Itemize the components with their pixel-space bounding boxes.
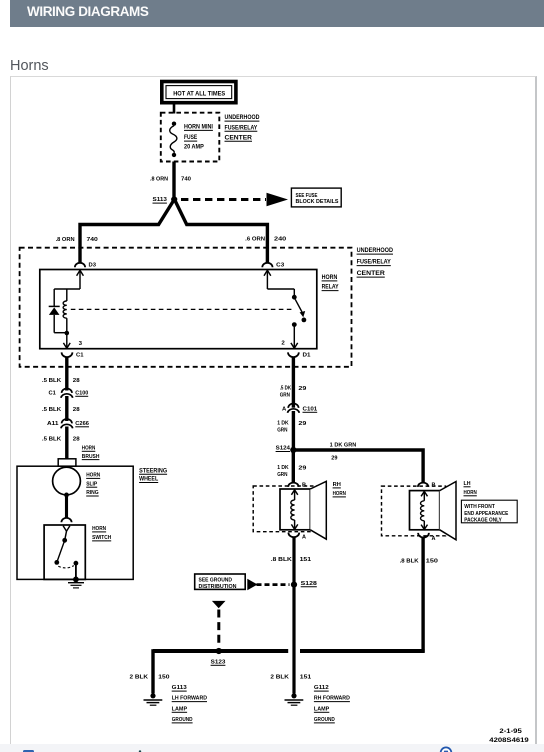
connector cavity at horn switch: [61, 518, 71, 522]
dashed armature linkage: [71, 308, 293, 310]
wire S124 to LH horn (horizontal): [293, 450, 423, 483]
junction dot coil output: [65, 331, 70, 336]
wire from HOT box to fuse box: [173, 105, 176, 114]
ground bus wire (left of crossing): [153, 649, 288, 653]
pin 3 arrow: [63, 333, 82, 348]
wire label .5 BLK 28: [42, 436, 80, 442]
relay box U1: [40, 270, 317, 349]
wire label 2 BLK 150: [130, 675, 170, 681]
note box SEE GROUND DISTRIBUTION: [195, 574, 246, 590]
wire S113 to C3 (right branch): [176, 202, 268, 264]
wire C266 to horn brush: [65, 427, 68, 460]
drawing number 4208S4619: [489, 737, 529, 744]
connector cavity D1: [288, 352, 311, 358]
wire label .8 BLK 151: [271, 557, 311, 563]
relay switch wiring: [267, 289, 294, 295]
connector cavity C1: [62, 352, 84, 358]
connector pin B (RH horn): [288, 482, 306, 488]
ground symbol at horn switch: [68, 583, 84, 588]
wire label .6 ORN 240 (right branch): [245, 237, 286, 243]
slip ring output dot: [64, 493, 69, 498]
connector pin A (RH horn): [288, 533, 306, 541]
footer circled icon: [441, 747, 452, 752]
note box WITH FRONT END APPEARANCE PACKAGE ONLY: [461, 500, 517, 523]
wire LH horn A to ground bus: [421, 537, 424, 652]
ground G112: [285, 693, 304, 705]
dashed box UNDERHOOD FUSE/RELAY CENTER (fuse block): [161, 113, 220, 162]
diode CR1: [49, 306, 60, 315]
connector cavity D3: [75, 263, 96, 269]
wire C1 to C100: [65, 357, 68, 391]
connector pin A (LH horn): [418, 533, 435, 542]
horn slip ring circle: [53, 467, 81, 495]
connector pin B (LH horn): [418, 482, 436, 488]
fuse HORN MINI FUSE 20 AMP: [170, 122, 177, 158]
wire S124 to RH horn: [292, 450, 295, 483]
connector cavity C3: [262, 263, 284, 269]
connector C100: [49, 389, 89, 398]
label UNDERHOOD FUSE/RELAY CENTER (top): [225, 114, 260, 141]
wire S113 to D3 (left branch): [80, 202, 173, 264]
label G112 RH FORWARD LAMP GROUND: [314, 685, 350, 723]
RH horn coil: [291, 490, 298, 530]
footer dark marker icon: [139, 750, 141, 752]
label UNDERHOOD FUSE/RELAY CENTER (right): [357, 247, 394, 277]
wire slip ring to horn switch: [65, 495, 68, 518]
wire C101 to S124: [292, 411, 295, 450]
label HORN SLIP RING: [86, 473, 100, 497]
wire bus to G113: [151, 649, 154, 693]
steering wheel box: [17, 466, 133, 579]
horn switch contacts SW1: [54, 526, 78, 580]
connector C266: [47, 419, 89, 428]
ground bus wire (right of crossing): [300, 649, 425, 653]
label LH HORN: [464, 481, 477, 496]
arrow to S128: [247, 579, 289, 590]
LH horn body: [410, 482, 457, 540]
wire label 1 DK GRN 29 (RH drop): [277, 465, 306, 478]
label G113 LH FORWARD LAMP GROUND: [172, 685, 207, 723]
label HORN SWITCH: [92, 526, 111, 541]
pin arrow D3: [77, 270, 84, 289]
wire D1 to C101: [292, 357, 295, 408]
fuse label HORN MINI FUSE 20 AMP: [184, 124, 213, 151]
page heading Horns: [10, 58, 49, 74]
label HORN BRUSH: [82, 446, 100, 460]
wire label .5 BLK 28: [42, 407, 80, 413]
LH horn coil: [421, 491, 428, 529]
horn switch ground junction dot: [73, 577, 79, 583]
dashed box UNDERHOOD FUSE/RELAY CENTER (relay area): [20, 248, 352, 367]
date stamp 2-1-95: [499, 728, 522, 735]
wire RH horn A to ground: [292, 537, 295, 694]
relay coil branch wiring: [54, 289, 80, 333]
wire C100 to C266: [65, 396, 68, 421]
wire label .5 DK GRN 29: [280, 386, 307, 399]
top bar WIRING DIAGRAMS: [10, 0, 544, 27]
splice S128: [291, 581, 317, 588]
RH horn dashed box: [253, 486, 322, 532]
wire label .8 ORN 740: [150, 177, 191, 183]
wire label .5 BLK 28: [42, 378, 80, 384]
relay switch contacts: [292, 295, 306, 327]
wire label 2 BLK 151: [270, 675, 311, 681]
note box SEE FUSE BLOCK DETAILS: [291, 188, 341, 207]
connector C101: [282, 404, 317, 413]
pin 2 arrow: [281, 325, 297, 349]
label STEERING WHEEL: [139, 467, 167, 482]
splice S123: [211, 648, 226, 666]
label RH HORN: [333, 482, 346, 497]
wire label .8 BLK 150: [400, 559, 438, 565]
RH horn body: [280, 481, 326, 539]
horn switch box: [44, 525, 85, 579]
ground G113: [144, 693, 163, 705]
ground distribution arrow to S123: [212, 601, 226, 647]
wire label 1 DK GRN 29: [277, 421, 306, 434]
dashed arrow to fuse block details: [181, 193, 288, 207]
wire label .8 ORN 740 (left branch): [56, 237, 98, 243]
relay coil L1: [63, 289, 67, 333]
pin arrow C3: [264, 270, 271, 289]
splice S113: [153, 196, 178, 203]
footer toolbar strip: [0, 744, 544, 752]
power box HOT AT ALL TIMES: [162, 82, 236, 103]
horn brush box: [58, 459, 76, 466]
wire label 1 DK GRN 29 (horizontal): [330, 443, 357, 462]
label HORN RELAY: [322, 274, 340, 291]
LH horn dashed box: [382, 486, 446, 536]
footer blue button icon: [23, 750, 34, 752]
splice S124: [276, 446, 297, 454]
wire fuse to S113: [172, 162, 175, 198]
